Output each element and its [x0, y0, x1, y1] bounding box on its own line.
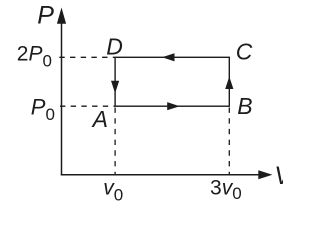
dashed line at v0 (below A to x-axis): [114, 108, 116, 175]
arrowhead on left edge D to A (pointing down): [111, 81, 119, 94]
svg-text:A: A: [91, 106, 108, 132]
arrowhead on top edge C to D (pointing left): [162, 53, 175, 61]
y-axis arrowhead: [57, 8, 66, 24]
y-axis (P axis): [61, 18, 63, 175]
arrowhead on bottom edge A to B (pointing right): [167, 102, 180, 110]
dashed line at 3v0 (below B to x-axis): [228, 108, 230, 175]
dashed line at P0 level (axis to A): [60, 105, 115, 107]
svg-text:C: C: [236, 39, 253, 65]
svg-text:B: B: [237, 93, 252, 119]
svg-text:P: P: [37, 2, 54, 30]
x-axis (V axis): [61, 174, 262, 176]
svg-text:V: V: [274, 162, 283, 190]
svg-text:D: D: [106, 34, 123, 60]
cycle rectangle ABCD: [115, 57, 229, 106]
x-axis arrowhead: [258, 170, 272, 179]
arrowhead on right edge B to C (pointing up): [225, 77, 233, 90]
dashed line at 2P0 level (axis to D): [59, 56, 114, 58]
